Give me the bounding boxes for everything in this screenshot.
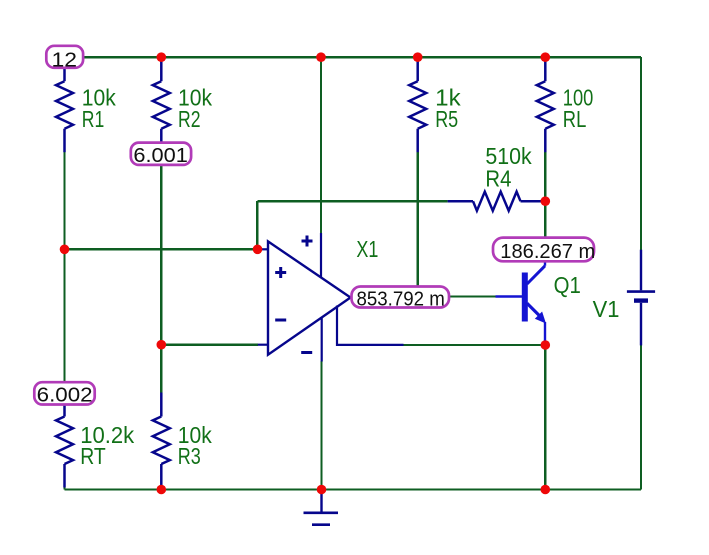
svg-text:6.001: 6.001 [133, 145, 187, 167]
svg-text:186.267 m: 186.267 m [500, 241, 595, 263]
wire RL to R4 node [544, 152, 546, 238]
svg-text:RT: RT [80, 443, 106, 469]
resistor R3 10k [153, 393, 170, 488]
resistor R1 10k [56, 57, 73, 152]
wire opamp output to Q1 base [449, 295, 496, 297]
node left noninv [60, 245, 70, 255]
svg-text:6.002: 6.002 [37, 385, 93, 407]
node top RL [541, 52, 551, 62]
svg-text:R4: R4 [485, 165, 511, 191]
node bottom R3 [157, 485, 167, 495]
node bottom emitter [541, 485, 551, 495]
ground [304, 490, 339, 525]
node R4 collector [541, 196, 551, 206]
transistor Q1 [496, 259, 547, 342]
node bottom ground [317, 485, 327, 495]
svg-text:R3: R3 [178, 443, 201, 469]
resistor R2 10k [153, 57, 170, 152]
wire noninverting input [65, 248, 258, 250]
wire inverting input [161, 344, 257, 346]
node voltage bubble 12 [46, 46, 83, 72]
node voltage bubble 6.002 [34, 382, 94, 407]
svg-text:R1: R1 [82, 106, 105, 132]
node top opamp supply [316, 52, 326, 62]
resistor RL 100 [537, 57, 554, 152]
wire emitter node down [544, 345, 546, 490]
wire opamp Vplus branch [320, 57, 322, 233]
wire right rail upper [640, 57, 642, 250]
node R3 inverting [157, 340, 167, 350]
node voltage bubble 6.001 [131, 143, 191, 168]
svg-text:V1: V1 [593, 296, 620, 322]
wire feedback top to R4 [257, 200, 447, 202]
node top R5 [413, 52, 423, 62]
wire right rail lower [640, 345, 642, 490]
svg-text:RL: RL [563, 106, 587, 132]
resistor R4 510k [448, 192, 546, 211]
op-amp X1 [258, 233, 404, 362]
wire emitter feedback [403, 344, 546, 346]
node noninv input [253, 245, 263, 255]
node voltage bubble 853.792m [352, 287, 450, 311]
node voltage bubble 186.267m [493, 238, 595, 264]
wire opamp Vminus branch [320, 361, 322, 490]
wire R3 bottom stub [160, 488, 162, 490]
battery V1 [627, 250, 655, 346]
wire feedback vertical [256, 201, 258, 249]
node top R2 [157, 52, 167, 62]
wire left rail upper [63, 152, 65, 384]
svg-text:R2: R2 [178, 106, 201, 132]
wire R5 branch [417, 152, 419, 297]
svg-text:X1: X1 [356, 236, 378, 262]
svg-text:R5: R5 [435, 106, 458, 132]
svg-text:12: 12 [52, 49, 78, 71]
wire top rail [65, 56, 642, 58]
svg-text:853.792 m: 853.792 m [357, 288, 445, 310]
wire left rail lower [63, 487, 65, 490]
svg-text:Q1: Q1 [554, 272, 581, 298]
wire R2 branch middle [160, 152, 162, 393]
resistor R5 1k [409, 57, 426, 152]
node emitter feedback [541, 340, 551, 350]
resistor RT 10.2k [56, 393, 73, 488]
wire bottom rail [65, 488, 642, 490]
